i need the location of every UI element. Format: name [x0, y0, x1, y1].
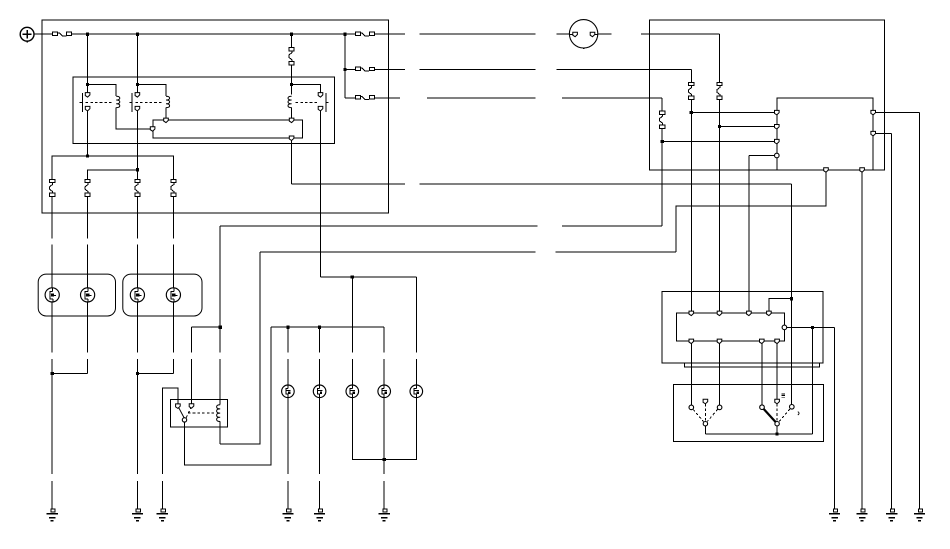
junction FB tap — [690, 111, 693, 114]
wire lamp2 feed — [87, 197, 89, 288]
wire fuse3 row — [345, 97, 389, 99]
wire relay3 coil out — [291, 108, 293, 119]
junction H3 bulb3 — [351, 275, 354, 278]
junction relay1 coil tap — [86, 83, 89, 86]
wire pin b4 drop — [776, 343, 778, 399]
relay R3 contact 1 — [318, 93, 323, 98]
dimmer switch dashed arms — [693, 403, 717, 421]
relay R2 coil — [166, 96, 170, 107]
wire fuse FC column — [661, 98, 663, 226]
relay R3 coil — [288, 96, 292, 107]
junction common ground — [811, 326, 814, 329]
fuse F7 — [135, 179, 140, 196]
wire bulb4 ground leg — [383, 398, 385, 460]
relay R4 coil — [217, 405, 221, 422]
terminal coil2 net — [164, 118, 169, 123]
junction FA tap — [718, 125, 721, 128]
label LO — [798, 412, 799, 415]
indicator bulb 4 — [378, 385, 391, 398]
junction ground tie R — [136, 372, 139, 375]
relay module inner box — [73, 77, 335, 143]
wire bulb345 tie — [352, 398, 416, 460]
ground G2 — [132, 509, 143, 521]
relay R1 armature bar — [80, 93, 83, 112]
wire relay2 coil feed — [137, 85, 166, 97]
wire switch common bus — [705, 327, 812, 434]
terminal coil1 net — [150, 127, 155, 132]
beam switch dashed arms — [777, 404, 790, 422]
unit terminal 1 — [775, 110, 780, 115]
wire H3 indicator feed a — [321, 276, 417, 278]
wire tA ground run — [919, 113, 921, 509]
wire relay4 common out — [185, 327, 271, 465]
junction ground tie L — [51, 372, 54, 375]
wire common ground run — [834, 327, 836, 508]
wire bulb1 ground — [287, 398, 289, 509]
junction FC tap — [661, 140, 664, 143]
relay R3 contact 2 — [318, 106, 323, 111]
wire relay4 branch — [192, 326, 221, 328]
wire lamp4 ground drop — [172, 302, 174, 374]
connector shelf — [685, 363, 820, 367]
wire W1 headlight feed — [52, 156, 173, 179]
wire net output drop — [291, 140, 293, 184]
fuse F4 — [355, 95, 374, 99]
junction bus/relay2 — [136, 33, 139, 36]
junction W1/relay1 — [86, 154, 89, 157]
wire lamp pair tie R — [137, 373, 173, 375]
connector inner box — [676, 313, 784, 341]
wire switch common out — [787, 326, 835, 328]
unit terminal 2 — [775, 125, 780, 130]
relay R3 dashed link — [296, 101, 318, 103]
unit terminal 3 — [775, 139, 780, 144]
under-hood fuse/relay box — [42, 20, 389, 213]
relay R2 contact 2 — [135, 106, 140, 111]
beam switch pivot — [775, 422, 779, 426]
fuse F3 — [355, 67, 374, 71]
dimmer switch contact off — [703, 399, 708, 404]
wire Y184 drop — [791, 184, 793, 299]
wire t4 drop — [748, 156, 750, 314]
wire jog to t4pin — [769, 299, 792, 314]
wire fuse trio column — [344, 34, 346, 98]
wire b2 ground run — [861, 172, 863, 509]
wire lamp1 ground drop — [51, 302, 53, 374]
switch conn pin t3 — [747, 311, 752, 316]
relay R1 dashed link — [86, 101, 113, 103]
relay R1 contact 2 — [85, 106, 90, 111]
fuse F2 — [355, 32, 374, 36]
lighting control unit box — [777, 98, 873, 170]
wire relay2 coil out — [165, 108, 167, 119]
junction H4 bulb2 — [318, 326, 321, 329]
wire lamp2 ground drop — [87, 302, 89, 374]
wire relay2 to fuse — [136, 170, 138, 180]
relay R4 armature — [179, 408, 184, 418]
wire relay4 coil feed — [219, 226, 221, 405]
wire ground stub — [161, 481, 163, 509]
wire relay3 switch feed — [292, 85, 321, 95]
dimmer switch contact 1 — [689, 405, 694, 410]
dimmer switch pivot — [703, 422, 707, 426]
relay R1 coil — [116, 96, 120, 107]
junction switch common — [776, 432, 779, 435]
junction coil feed branch — [219, 326, 222, 329]
wire bulb2 feed — [319, 327, 321, 385]
switch conn pin t1 — [689, 311, 694, 316]
headlight bulb low R — [130, 288, 144, 302]
switch conn pin b3 — [760, 339, 765, 344]
relay R4 contact 2 — [189, 404, 194, 409]
wire relay1 feed — [87, 34, 89, 94]
wire hi contact feed — [791, 299, 793, 405]
wire Y184 line — [292, 183, 792, 185]
ground G4 — [282, 509, 293, 521]
wire line L3 — [389, 97, 663, 99]
junction H4 bulb1 — [286, 326, 289, 329]
fuse F1 — [289, 48, 294, 66]
fuse F6 — [85, 179, 90, 196]
wire lamp4 feed — [172, 197, 174, 288]
wire unit t2 — [720, 126, 777, 128]
wire relay1 coil feed — [88, 85, 117, 97]
wire bulb5 feed — [415, 277, 417, 385]
fuse FB — [689, 82, 694, 99]
battery positive terminal — [20, 27, 34, 42]
wire relay1 coil to net — [116, 108, 150, 129]
ground G1 — [47, 509, 58, 521]
fusebox terminal b1 — [824, 168, 829, 173]
relay R2 dashed link — [135, 101, 162, 103]
beam switch contact hi — [790, 405, 795, 410]
wire pin b2 drop — [719, 343, 721, 405]
junction W2/relay2 — [136, 168, 139, 171]
wire bulb4 feed — [383, 327, 385, 385]
wire bulb2 ground — [319, 398, 321, 509]
wire ground run L2 — [136, 374, 138, 509]
fuse F8 — [171, 179, 176, 196]
right headlight assembly — [123, 274, 202, 316]
wire unit t1 — [691, 112, 777, 114]
beam switch contact mid — [775, 399, 780, 404]
wire fuse column relay3 — [291, 34, 293, 94]
wire pin b3 drop — [761, 343, 763, 405]
wire relay2 feed — [136, 34, 138, 94]
switch conn pin t4 — [767, 311, 772, 316]
connector C1 pin 2 — [590, 32, 595, 37]
dimmer switch contact 2 — [717, 405, 722, 410]
wire H4 indicator feed b — [271, 326, 384, 328]
wire relay4 contact1 feed — [162, 388, 178, 474]
headlight bulb low L — [45, 288, 59, 302]
ground G8 — [886, 509, 897, 521]
wire lamp3 ground drop — [136, 302, 138, 374]
ground G5 — [314, 509, 325, 521]
wire relay1 switch out — [87, 111, 89, 156]
connector C1 pin 1 — [573, 32, 578, 37]
indicator bulb 3 — [346, 385, 359, 398]
headlight bulb high R — [166, 288, 180, 302]
unit terminal B — [871, 131, 876, 136]
fuse F5 — [50, 179, 55, 196]
wire dimmer common — [704, 426, 706, 434]
terminal coil3 net — [289, 118, 294, 123]
wire common drop — [812, 327, 814, 434]
wire ground run L1 — [51, 374, 53, 509]
wire unit tA — [873, 112, 919, 114]
combination switch box — [673, 385, 823, 442]
ground G6 — [379, 509, 390, 521]
wire tB ground run — [891, 134, 893, 509]
junction relay3 tap — [290, 83, 293, 86]
relay R4 dashed links — [186, 408, 215, 417]
switch conn pin common — [782, 325, 787, 330]
wire unit t4 — [749, 155, 777, 157]
wire relay4 contact2 feed — [191, 327, 193, 404]
relay R4 contact 1 — [176, 404, 181, 409]
relay R2 contact 1 — [135, 93, 140, 98]
indicator bulb 1 — [282, 385, 295, 398]
wire H2 relay4 line — [260, 251, 676, 253]
fusebox terminal b2 — [860, 168, 865, 173]
terminal net output — [289, 136, 294, 141]
wire coil to H2 — [220, 252, 260, 444]
switch conn pin b4 — [775, 339, 780, 344]
wire beam common — [776, 426, 778, 434]
fusible link main — [53, 32, 72, 36]
connector C1 — [569, 20, 598, 49]
junction fuse trio mid — [343, 68, 346, 71]
wire relay3 switch drop — [320, 111, 322, 277]
relay R3 armature bar — [326, 93, 329, 112]
combination switch connector box — [662, 291, 823, 363]
junction jog — [790, 297, 793, 300]
ground G7 — [914, 509, 925, 521]
wire fuse2 row — [345, 69, 389, 71]
wire unit t3 — [662, 141, 777, 143]
junction bus/fuse trio — [343, 33, 346, 36]
control relay box — [171, 400, 228, 427]
wire b1 route — [676, 172, 826, 252]
wire bulb3 feed — [351, 277, 353, 385]
switch conn pin b2 — [717, 339, 722, 344]
switch conn pin b1 — [689, 339, 694, 344]
junction relay2 coil tap — [136, 83, 139, 86]
beam switch contact lo — [760, 405, 765, 410]
ground G10 — [829, 509, 840, 521]
relay R4 pivot — [182, 418, 186, 422]
junction bulb tie — [383, 458, 386, 461]
wire relay4 coil out — [219, 422, 221, 444]
wire battery bus — [34, 33, 389, 35]
wire tie ground run — [383, 460, 385, 509]
wire pin b1 drop — [690, 343, 692, 405]
ground G9 — [857, 509, 868, 521]
relay R1 contact 1 — [85, 93, 90, 98]
wire lamp pair tie L — [52, 373, 87, 375]
wire fuse FB column — [690, 70, 692, 314]
wire line L2 — [389, 69, 692, 71]
wire H1 relay4 coil line — [220, 225, 662, 227]
switch conn pin t2 — [717, 311, 722, 316]
unit terminal 4 — [775, 153, 780, 158]
wire W2 headlight feed — [88, 170, 138, 180]
fuse FA — [717, 82, 722, 99]
beam switch arm — [764, 409, 776, 423]
wire lamp1 feed — [51, 197, 53, 288]
wire unit tB — [873, 133, 892, 135]
fuse FC — [660, 111, 665, 128]
junction bus/fuse column — [290, 33, 293, 36]
under-dash fuse box — [650, 20, 885, 170]
junction bus/relay1 — [86, 33, 89, 36]
indicator bulb 2 — [313, 385, 326, 398]
wire lamp3 feed — [136, 197, 138, 288]
unit terminal A — [871, 110, 876, 115]
left headlight assembly — [38, 274, 115, 316]
wire net coil common loop — [153, 120, 303, 138]
wire fuse FA column — [719, 34, 721, 313]
relay R2 armature bar — [129, 93, 132, 112]
wire line L1 — [389, 33, 720, 35]
wire relay2 switch out — [136, 111, 138, 170]
wire bulb1 feed — [287, 327, 289, 385]
ground G3 — [157, 509, 168, 521]
indicator bulb 5 — [410, 385, 423, 398]
headlight bulb high L — [81, 288, 95, 302]
label HI — [782, 394, 786, 397]
